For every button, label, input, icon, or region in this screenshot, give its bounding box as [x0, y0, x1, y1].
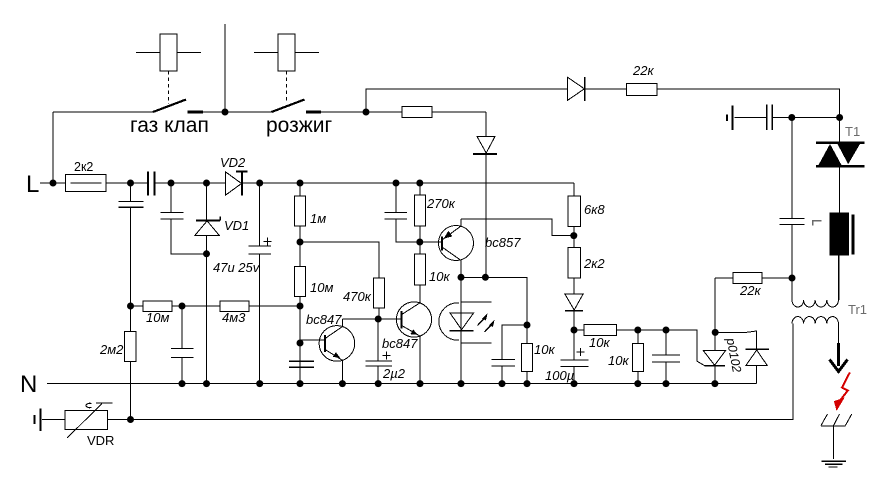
switch розжиг blade	[272, 100, 305, 113]
dashed actuator link розжиг	[286, 71, 288, 101]
svg-text:L: L	[26, 171, 39, 198]
varistor VDR	[42, 403, 113, 438]
switch contact stubs	[188, 111, 322, 114]
resistor 10м horizontal	[143, 301, 172, 312]
ground stub at gate cap	[727, 106, 733, 131]
resistor 1м	[295, 183, 306, 242]
junction y330 c	[663, 327, 670, 334]
resistor 10к vertical right	[632, 330, 643, 384]
capacitor at x300	[289, 361, 314, 367]
junction L-47u	[256, 180, 263, 187]
svg-text:10к: 10к	[534, 342, 555, 357]
resistor 10к at x527	[522, 325, 533, 384]
LED light arrows	[478, 315, 494, 332]
spark gap electrodes	[821, 414, 852, 459]
junction N-666	[663, 380, 670, 387]
junction N-574	[571, 380, 578, 387]
capacitor at x182	[171, 306, 194, 384]
junction N-182	[179, 380, 186, 387]
wire bc857 collector node	[461, 277, 527, 325]
wire розжиг node up and to top rail	[366, 89, 840, 118]
relay coil розжиг	[254, 34, 319, 71]
wire VDR line to Tr1	[107, 324, 793, 420]
junction N-714	[711, 380, 718, 387]
svg-text:6к8: 6к8	[584, 202, 605, 217]
svg-text:10к: 10к	[429, 269, 450, 284]
junction gate cap	[788, 114, 795, 121]
diode D top rail	[567, 77, 585, 101]
zener VD1	[195, 183, 220, 254]
resistor 22к right	[715, 272, 792, 283]
svg-text:VD2: VD2	[220, 155, 246, 170]
svg-text:2к2: 2к2	[74, 160, 93, 174]
junction N-527	[524, 380, 531, 387]
junction N-206	[203, 380, 210, 387]
wire x792 down to Tr1	[791, 278, 793, 300]
electrolytic 100µ	[561, 330, 589, 384]
junction y306 left	[127, 303, 134, 310]
wire VD1 anode down to N	[206, 254, 208, 384]
junction p0102 anode	[712, 329, 719, 336]
junction L-1м	[297, 180, 304, 187]
junction L-270к	[416, 180, 423, 187]
wire L net horizontal	[40, 182, 574, 184]
junction N-420	[417, 380, 424, 387]
resistor 470к	[374, 278, 385, 319]
svg-text:470к: 470к	[343, 289, 372, 304]
junction VDR-2м2	[127, 416, 134, 423]
capacitor at x502	[491, 325, 527, 384]
resistor 270к	[414, 183, 425, 242]
capacitor at x792 top	[779, 118, 804, 279]
svg-text:270к: 270к	[426, 196, 456, 211]
capacitor series in L line	[148, 172, 155, 196]
svg-text:p0102: p0102	[723, 336, 744, 374]
wire switch line	[53, 111, 486, 113]
wire opto anode down	[460, 277, 462, 383]
wire divider node to 470к	[300, 242, 379, 278]
capacitor C1 at x130	[118, 183, 143, 306]
svg-text:22к: 22к	[632, 63, 654, 78]
svg-text:4м3: 4м3	[222, 310, 246, 325]
wire N line	[47, 383, 757, 385]
resistor 22к top	[626, 83, 657, 95]
wire stub between coils up	[224, 24, 226, 112]
junction N-460	[458, 380, 465, 387]
resistor 10к horizontal right	[584, 324, 617, 335]
thyristor p0102	[703, 278, 725, 384]
triac T1	[816, 118, 865, 213]
junction N-637	[634, 380, 641, 387]
junction y330 b	[634, 327, 641, 334]
electrolytic 2µ2	[365, 319, 392, 384]
dashed actuator link газ клап	[168, 71, 170, 104]
svg-text:розжиг: розжиг	[266, 114, 333, 137]
svg-text:N: N	[20, 371, 37, 398]
svg-text:VD1: VD1	[224, 218, 249, 233]
junction N-378	[375, 380, 382, 387]
junction L-VD1	[203, 180, 210, 187]
junction gate T1	[836, 114, 843, 121]
transformer Tr1 winding upper	[792, 300, 838, 307]
wire y330 line	[574, 330, 705, 366]
svg-text:10к: 10к	[589, 335, 610, 350]
spark lightning red	[834, 373, 850, 412]
ground earth bottom	[822, 461, 847, 467]
junction divider 242	[297, 239, 304, 246]
junction y306 right	[297, 303, 304, 310]
capacitor at x396	[385, 183, 420, 242]
junction cap10k node	[524, 322, 531, 329]
wire T1 gate line	[734, 117, 839, 119]
transformer Tr1 primary	[830, 213, 855, 300]
wire L up to switch line	[52, 112, 54, 183]
transistor bc857	[439, 219, 474, 277]
capacitor C2 at x171	[160, 183, 206, 254]
resistor 10к under 270к	[414, 242, 425, 303]
junction L-fuse	[50, 180, 57, 187]
svg-text:газ клап: газ клап	[130, 114, 209, 137]
junction C2-VD1	[203, 250, 210, 257]
transistor bc847 second	[396, 285, 431, 384]
svg-text:bc847: bc847	[306, 312, 342, 327]
resistor 2к2 right	[568, 247, 581, 294]
electrolytic 47и 25v	[249, 183, 272, 384]
wire p0102 anode to diode	[715, 331, 756, 349]
svg-text:1м: 1м	[310, 211, 326, 226]
switch газ клап blade	[153, 100, 186, 113]
resistor 4м3	[220, 301, 249, 312]
wire base bc847 first	[299, 306, 301, 384]
relay coil газ клап	[136, 34, 201, 71]
junction collector net right	[482, 274, 489, 281]
junction L-C1	[127, 180, 134, 187]
svg-text:VDR: VDR	[87, 433, 114, 448]
capacitor gate series	[767, 105, 772, 131]
svg-text:10к: 10к	[608, 353, 629, 368]
junction 22к right	[789, 275, 796, 282]
wire winding lower right down	[837, 324, 839, 343]
svg-text:2к2: 2к2	[583, 256, 605, 271]
wire collector bc847-1 to base bc847-2	[342, 318, 401, 320]
diode D down at x574	[565, 294, 583, 330]
junction розжиг out	[363, 109, 370, 116]
junction N-502	[499, 380, 506, 387]
transformer Tr1 winding lower	[792, 317, 838, 324]
core mark	[813, 221, 822, 226]
junction y306 mid	[179, 303, 186, 310]
svg-text:47и 25v: 47и 25v	[213, 260, 261, 275]
resistor 2м2	[125, 306, 137, 420]
diode D2 to bc857 collector net	[485, 112, 487, 136]
resistor 6к8	[568, 183, 581, 247]
resistor 10м vertical	[295, 242, 306, 306]
svg-text:bc857: bc857	[485, 235, 521, 250]
junction L-C396	[393, 180, 400, 187]
junction 270к bottom	[416, 239, 423, 246]
diode VD2	[226, 172, 248, 196]
junction N-259	[256, 380, 263, 387]
junction base bc847-1	[297, 340, 304, 347]
junction collector net left	[458, 274, 465, 281]
HV arrow	[830, 343, 848, 372]
svg-text:2м2: 2м2	[99, 342, 124, 357]
junction bc857 emitter node	[570, 232, 577, 239]
ground chassis at VDR	[35, 408, 41, 430]
wire diode down to collector net	[485, 154, 487, 277]
svg-text:bc847: bc847	[382, 336, 418, 351]
svg-text:10м: 10м	[146, 310, 169, 325]
wire base net bc857	[420, 241, 442, 243]
junction N-342	[339, 380, 346, 387]
svg-text:T1: T1	[845, 124, 860, 139]
junction N-300	[297, 380, 304, 387]
svg-text:22к: 22к	[739, 283, 761, 298]
wire y306 line	[131, 305, 301, 307]
resistor in switch line	[402, 107, 432, 118]
diode reverse at x756	[746, 349, 769, 383]
junction y330 a	[571, 327, 578, 334]
svg-text:2µ2: 2µ2	[382, 366, 406, 381]
wire winding upper right up	[837, 255, 839, 300]
fuse 2к2	[65, 175, 106, 192]
svg-text:100µ: 100µ	[545, 368, 574, 383]
junction L-C2	[168, 180, 175, 187]
svg-text:Tr1: Tr1	[848, 302, 867, 317]
capacitor at x666	[652, 330, 680, 384]
wire bc857 emitter to 6к8/2к2 node	[461, 219, 574, 235]
junction 470к bottom	[375, 316, 382, 323]
transistor bc847 first	[300, 319, 355, 384]
svg-text:10м: 10м	[310, 280, 333, 295]
optocoupler LED	[439, 302, 492, 343]
junction switch mid	[222, 109, 229, 116]
